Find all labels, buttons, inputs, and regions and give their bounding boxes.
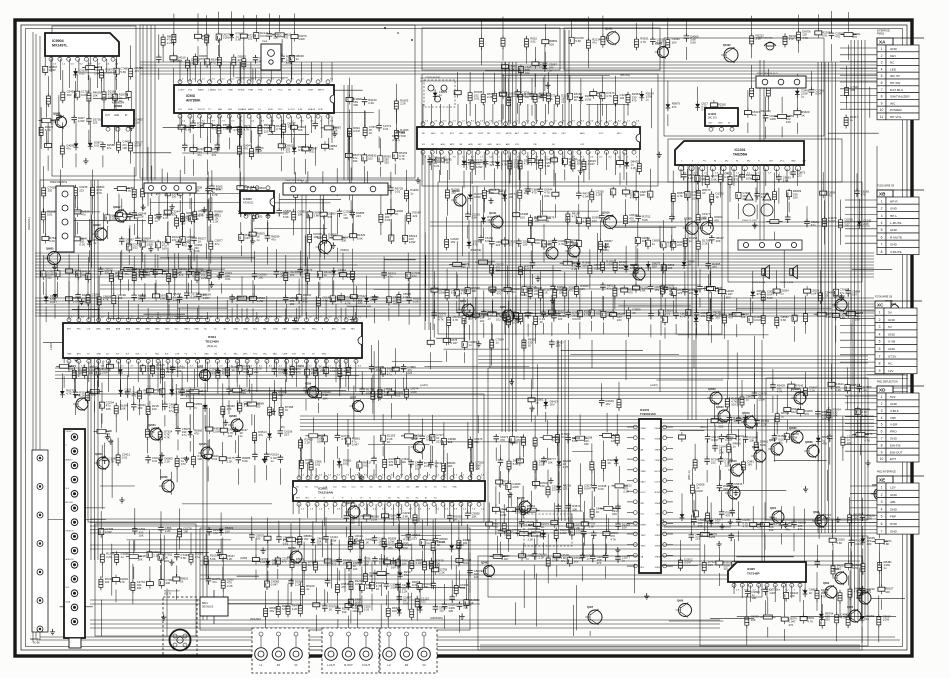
capacitor C1201 [857,384,872,393]
svg-text:1u: 1u [121,555,125,559]
diode D980 [60,373,75,398]
capacitor C1283 [431,566,437,589]
svg-text:100: 100 [540,484,545,488]
capacitor C1416 [745,573,760,600]
capacitor C1148 [592,469,607,508]
svg-text:0.047: 0.047 [50,300,57,304]
resistor R1411 [814,293,834,319]
svg-text:4.7K: 4.7K [777,390,783,394]
svg-text:0.047: 0.047 [823,516,830,520]
svg-text:0.047: 0.047 [684,561,691,565]
svg-text:4.7K: 4.7K [96,191,102,195]
capacitor C669 [312,101,318,129]
svg-text:4.7K: 4.7K [195,271,201,275]
resistor R1366 [546,72,550,114]
wire IC9904 pin drops [51,59,116,88]
capacitor C1129 [541,456,556,465]
svg-text:223: 223 [509,243,514,247]
resistor R1070 [219,442,235,464]
capacitor C1376 [140,220,155,263]
svg-text:330: 330 [241,391,246,395]
svg-text:102: 102 [507,98,512,102]
capacitor C1304 [779,506,794,544]
svg-text:470: 470 [497,292,502,296]
svg-text:16V: 16V [791,438,796,442]
svg-text:1/2W: 1/2W [769,117,776,121]
svg-text:8: 8 [881,95,883,99]
svg-text:102: 102 [496,318,501,322]
svg-text:GND: GND [890,228,898,232]
capacitor C753 [105,194,119,240]
svg-text:TA8256H: TA8256H [733,153,748,157]
svg-text:HVcc: HVcc [312,329,317,331]
svg-text:223: 223 [93,120,98,124]
svg-text:BUF: BUF [524,133,529,135]
resistor R876 [621,285,637,314]
diode D1309 [819,595,834,622]
resistor R1003 [226,344,240,379]
capacitor C931 [76,254,91,280]
capacitor C1412 [833,271,848,310]
capacitor C632 [71,95,85,124]
svg-text:223: 223 [286,150,291,154]
svg-text:223: 223 [734,485,739,489]
resistor R838 [528,267,542,299]
transistor Q205 [499,306,514,323]
svg-text:1u: 1u [410,191,414,195]
transistor Q9902 [112,206,127,223]
svg-text:IC908: IC908 [186,94,195,98]
svg-text:16V: 16V [793,195,798,199]
svg-text:VSDA: VSDA [655,427,661,430]
resistor R1274 [410,543,423,571]
svg-text:10K: 10K [786,120,791,124]
resistor R1021 [371,375,385,414]
svg-text:4: 4 [881,416,883,420]
svg-text:47u: 47u [569,289,574,293]
resistor R1363 [532,47,548,87]
transistor Q3505 [725,483,740,500]
svg-text:0.01: 0.01 [79,72,85,76]
capacitor C1273 [406,517,421,540]
svg-text:1u: 1u [330,541,334,545]
diode D1058 [158,456,173,480]
wire IC1001 bottom pin drops [423,152,624,180]
svg-text:5: 5 [879,340,881,344]
svg-text:INC: INC [890,101,896,105]
svg-text:10K: 10K [833,414,838,418]
resistor R1027 [404,372,418,400]
resistor R1103 [442,442,456,488]
svg-text:4.7K: 4.7K [852,566,858,570]
capacitor C682 [393,135,408,175]
svg-text:10K: 10K [106,407,111,411]
svg-text:10K: 10K [612,512,617,516]
resistor R1104 [468,437,482,460]
svg-text:ST.2V: ST.2V [888,354,897,358]
svg-text:2.2K: 2.2K [528,537,534,541]
svg-text:470: 470 [804,412,809,416]
capacitor C1026 [401,364,416,391]
svg-text:4.7K: 4.7K [399,157,405,161]
svg-text:4.7K: 4.7K [138,273,144,277]
svg-text:470: 470 [700,314,705,318]
svg-text:0.01: 0.01 [47,212,53,216]
capacitor C1198 [827,414,833,465]
capacitor C949 [186,255,201,295]
resistor R1266 [384,557,400,570]
connector XE [877,471,924,535]
resistor R904 [696,223,710,267]
resistor R621 [291,13,307,41]
svg-text:47u: 47u [388,546,393,550]
svg-text:470: 470 [341,585,346,589]
diode D1332 [795,74,810,99]
svg-text:47u: 47u [752,113,757,117]
transistor Q2016 [601,211,617,229]
svg-text:4.7K: 4.7K [584,312,590,316]
svg-text:223: 223 [412,536,417,540]
resistor R1113 [507,438,521,472]
capacitor C623 [43,51,58,76]
svg-text:16V: 16V [847,441,852,445]
transistor Q3512 [871,484,886,501]
svg-text:7: 7 [881,437,883,441]
svg-text:6: 6 [881,430,883,434]
capacitor C1314 [849,523,864,563]
capacitor C1112 [510,421,525,446]
diode D924 [857,199,872,228]
capacitor C796 [365,171,380,195]
svg-text:330: 330 [524,314,529,318]
capacitor C776 [251,186,266,216]
svg-text:0.01: 0.01 [576,531,582,535]
svg-text:16V: 16V [592,219,597,223]
svg-text:470: 470 [628,291,633,295]
capacitor C880 [635,221,650,264]
resistor R1265 [382,515,396,562]
svg-text:5.6K: 5.6K [836,541,842,545]
svg-text:470: 470 [179,273,184,277]
diode D817 [481,195,496,238]
capacitor C1238 [288,578,303,605]
wire vpair 565 [565,30,569,130]
resistor R1426 [857,568,871,602]
resistor R1211 [131,564,145,604]
resistor R1157 [615,414,619,446]
svg-text:HP-VOL: HP-VOL [890,115,902,119]
capacitor C1046 [549,339,564,348]
svg-text:Q3508: Q3508 [805,441,813,444]
resistor R1344 [374,554,390,596]
wire IC1001 top pin drops [423,104,624,124]
svg-text:1u: 1u [652,242,656,246]
resistor R778 [249,215,265,242]
capacitor C973 [372,295,378,324]
resistor R777 [252,190,266,221]
capacitor C1385 [187,185,202,209]
transistor Q9905 [45,247,61,265]
svg-text:100: 100 [619,266,624,270]
svg-text:IC1001: IC1001 [396,130,405,134]
resistor R849 [566,211,580,225]
svg-text:100: 100 [475,467,480,471]
svg-text:1K: 1K [716,195,720,199]
svg-text:10K: 10K [749,439,754,443]
resistor R929 [66,254,82,293]
svg-text:2.2K: 2.2K [296,560,302,564]
capacitor C888 [661,220,676,269]
connector jack group 1 [252,628,309,673]
connector P9902 remote [50,182,74,252]
svg-text:100: 100 [520,215,525,219]
svg-text:223: 223 [678,291,683,295]
resistor R1002 [216,367,230,394]
resistor R1268 [386,591,400,632]
svg-text:1/2W: 1/2W [594,266,601,270]
capacitor C1428 [712,425,727,455]
resistor R672 [346,78,362,126]
capacitor C822 [489,225,503,265]
capacitor C818 [478,221,493,243]
transistor Q3513 [728,460,743,477]
wire IC2001 top pin drops [299,460,470,478]
svg-text:2.2K: 2.2K [79,394,85,398]
svg-text:47u: 47u [561,559,566,563]
capacitor C810 [456,294,471,316]
svg-text:OUT: OUT [802,161,807,163]
resistor R744 [42,218,58,244]
capacitor C1034 [462,319,477,363]
svg-text:0.01: 0.01 [524,267,530,271]
svg-text:102: 102 [248,37,253,41]
resistor R1242 [300,566,314,610]
svg-text:10K: 10K [146,273,151,277]
resistor R1377 [140,248,154,280]
svg-text:GND: GND [890,402,898,406]
svg-text:223: 223 [718,424,723,428]
svg-text:VIDEO: VIDEO [66,431,73,433]
svg-text:GND: GND [890,437,898,441]
svg-text:4.7K: 4.7K [606,94,612,98]
svg-text:16V: 16V [622,526,627,530]
svg-text:2.2K: 2.2K [623,490,629,494]
resistor R1039 [506,301,520,328]
svg-text:SINITIALIZER: SINITIALIZER [890,95,910,99]
svg-text:470: 470 [303,299,308,303]
capacitor C1386 [189,198,204,224]
svg-text:0.01: 0.01 [283,542,289,546]
svg-text:0.01: 0.01 [122,456,128,460]
svg-text:0.047: 0.047 [754,318,761,322]
resistor R1346 [396,526,412,573]
capacitor C840 [538,171,553,218]
svg-text:Q207: Q207 [350,396,357,399]
resistor R800 [388,190,404,237]
capacitor C867 [600,282,615,311]
resistor R1200 [841,416,855,461]
svg-text:OMF: OMF [283,354,288,356]
resistor R983 [83,365,97,379]
transistor Q603 [856,588,871,605]
svg-text:MU: MU [747,161,751,163]
capacitor C855 [576,216,591,227]
capacitor C1127 [532,538,547,579]
resistor R1404 [761,296,765,339]
resistor R1118 [516,442,523,466]
svg-text:4.7K: 4.7K [864,438,870,442]
svg-text:VSN: VSN [641,439,646,441]
capacitor C690 [529,78,544,116]
svg-text:Q3510: Q3510 [742,412,750,415]
svg-text:P601 DEFLECTION: P601 DEFLECTION [877,382,898,384]
svg-text:223: 223 [172,238,177,242]
transistor Q605 [846,606,861,623]
capacitor C657 [227,106,242,149]
svg-text:47u: 47u [81,213,86,217]
svg-text:1K: 1K [437,543,441,547]
capacitor C1141 [569,513,584,538]
svg-text:2.2K: 2.2K [866,517,872,521]
svg-text:(SDA): (SDA) [520,294,527,297]
resistor R1235 [276,590,290,617]
svg-text:16V: 16V [606,402,611,406]
svg-text:330: 330 [177,58,182,62]
svg-text:470: 470 [672,105,677,109]
capacitor C809 [454,272,469,312]
resistor R1147 [590,444,594,486]
svg-text:10K: 10K [472,515,477,519]
svg-text:470: 470 [513,531,518,535]
capacitor C1223 [206,560,221,585]
svg-text:330: 330 [844,224,849,228]
svg-text:VCC: VCC [278,90,283,92]
svg-text:1K: 1K [280,274,284,278]
svg-text:VOL: VOL [188,90,193,92]
svg-text:330: 330 [584,442,589,446]
svg-text:47u: 47u [387,373,392,377]
resistor R930 [66,277,82,304]
resistor R1094 [383,441,397,480]
svg-text:470: 470 [493,525,498,529]
capacitor C610 [216,12,231,57]
capacitor C1402 [748,298,763,326]
svg-text:5.6K: 5.6K [389,516,395,520]
svg-text:223: 223 [490,163,495,167]
svg-text:SYC: SYC [253,354,258,356]
svg-text:16V: 16V [402,561,407,565]
svg-text:47u: 47u [212,580,217,584]
diode D1131 [541,530,546,555]
capacitor C952 [196,277,211,316]
svg-text:330: 330 [172,213,177,217]
svg-text:1K: 1K [231,368,235,372]
svg-text:EQ: EQ [552,144,555,146]
diode D1089 [337,458,352,468]
resistor R911 [703,267,722,315]
svg-text:102: 102 [791,410,796,414]
capacitor C1110 [498,510,513,557]
svg-text:OUT: OUT [708,123,713,125]
svg-text:12V: 12V [890,486,896,490]
svg-text:2.2K: 2.2K [514,165,520,169]
capacitor C804 [403,215,418,245]
svg-text:100: 100 [885,590,890,594]
svg-text:F-IN: F-IN [298,109,303,111]
speaker SP1301 [752,265,769,284]
wire vbus left [91,180,98,560]
resistor R1133 [556,415,570,456]
resistor R751 [90,170,104,215]
capacitor C1049 [102,443,117,464]
capacitor C991 [140,364,155,375]
resistor R815 [466,310,482,341]
component B901 degauss coil [200,590,228,624]
svg-text:5.6K: 5.6K [357,236,363,240]
resistor R1417 [745,596,759,646]
resistor R1206 [99,576,113,590]
svg-text:1: 1 [879,311,881,315]
svg-text:Q3509: Q3509 [708,388,716,391]
resistor R1071 [238,385,252,414]
resistor R664 [282,102,296,151]
svg-text:470: 470 [757,525,762,529]
svg-text:470: 470 [212,153,217,157]
svg-text:0.047: 0.047 [828,219,835,223]
svg-text:1u: 1u [801,95,805,99]
resistor R1226 [221,556,234,602]
resistor R1328 [744,90,760,133]
resistor R1086 [309,438,322,485]
trimmer box CT2001 [424,76,455,107]
resistor R1423 [800,600,814,624]
svg-text:16V: 16V [391,566,396,570]
resistor R718 [586,17,600,68]
capacitor C814 [465,267,480,311]
svg-text:BASS: BASS [198,89,204,92]
resistor R1369 [525,36,538,64]
capacitor C863 [589,291,604,332]
resistor R1323 [872,522,892,566]
svg-text:1K: 1K [285,408,289,412]
svg-text:0.01: 0.01 [363,464,369,468]
capacitor C883 [648,169,653,200]
svg-text:470: 470 [332,562,337,566]
transistor C1305 [683,218,699,236]
svg-text:IC9904: IC9904 [52,39,64,43]
svg-text:GND: GND [888,318,896,322]
capacitor C1004 [226,373,232,414]
svg-text:L-MUTE: L-MUTE [890,221,902,225]
svg-text:10K: 10K [298,213,303,217]
svg-text:1K: 1K [632,311,636,315]
svg-text:1/2W: 1/2W [560,531,567,535]
connector XC [875,297,922,374]
capacitor C868 [601,296,616,334]
resistor R1121 [519,551,535,561]
resistor R684 [454,72,461,98]
svg-text:VDH8: VDH8 [655,503,661,505]
svg-text:470: 470 [714,218,719,222]
svg-text:5.6K: 5.6K [547,97,553,101]
resistor R1038 [490,322,504,365]
svg-text:YBM: YBM [67,354,72,356]
svg-text:THD: THD [258,90,263,92]
resistor R1296 [581,501,595,546]
wire bottom pairs [90,545,860,648]
svg-text:AFA: AFA [106,328,110,331]
svg-text:330: 330 [172,195,177,199]
